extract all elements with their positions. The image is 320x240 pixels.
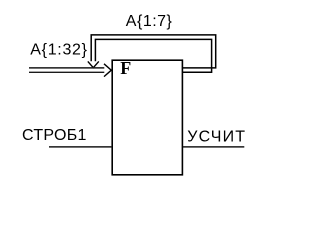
svg-text:A{1:7}: A{1:7} bbox=[126, 13, 173, 30]
svg-text:A{1:32}: A{1:32} bbox=[30, 41, 87, 58]
svg-text:СТРОБ1: СТРОБ1 bbox=[22, 127, 87, 144]
svg-text:УСЧИТ: УСЧИТ bbox=[187, 128, 246, 145]
svg-text:F: F bbox=[120, 58, 131, 78]
